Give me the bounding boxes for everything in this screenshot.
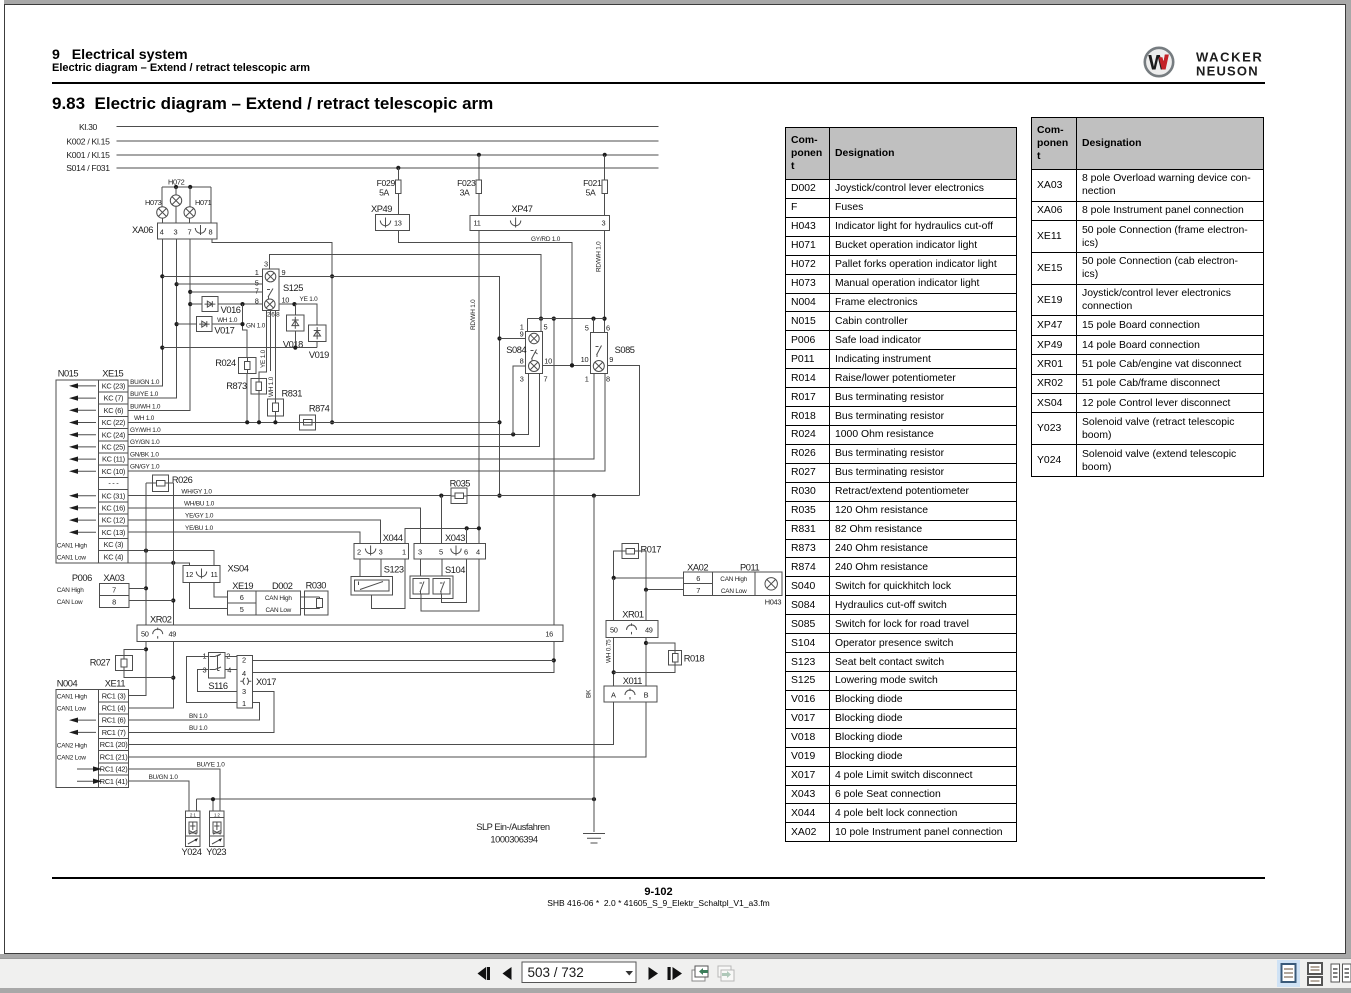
- wire X017 pin1 to XE11 RC1(6) BN 1.0: [129, 703, 260, 721]
- svg-text:8: 8: [112, 598, 116, 607]
- wire X011 B down: [645, 702, 647, 757]
- wire X043 pin3 riser down: [420, 559, 422, 578]
- switch S084 hydraulics cut-off: [525, 332, 542, 374]
- wire S125 pin10 to V019: [279, 304, 317, 325]
- wire KC24 GY/WH 1.0 to S084 pin3: [128, 374, 528, 435]
- svg-text:R024: R024: [215, 358, 236, 368]
- svg-text:9: 9: [282, 268, 286, 277]
- resistor R035: [451, 488, 467, 503]
- lamp H073: [157, 207, 168, 218]
- fuse F029 5A: [396, 166, 400, 170]
- svg-text:XS04: XS04: [228, 564, 249, 574]
- diode V019: [309, 325, 326, 341]
- wire R018 bottom lead: [614, 665, 675, 672]
- wire CAN2 Low vertical: [645, 590, 647, 686]
- svg-text:49: 49: [645, 625, 653, 634]
- connector XR02 cab/frame disconnect: [137, 625, 563, 641]
- svg-text:RD/WH 1.0: RD/WH 1.0: [470, 299, 477, 330]
- wire KC10 GN/GY 1.0 to S085 pin8: [128, 374, 605, 471]
- svg-text:V019: V019: [309, 350, 329, 360]
- wire S084 pin1 riser to bus: [527, 319, 529, 332]
- wire KC31 WH/GY 1.0 through R035: [128, 495, 451, 497]
- resistor R017: [622, 544, 638, 559]
- ground symbol: [583, 834, 605, 844]
- svg-text:BU/YE 1.0: BU/YE 1.0: [130, 391, 159, 398]
- svg-text:4: 4: [242, 669, 246, 678]
- svg-text:KC (12): KC (12): [102, 516, 125, 525]
- wire BK ground drop: [593, 496, 595, 832]
- wire CAN2 Low RC1(21) to X011 B: [129, 702, 646, 757]
- svg-text:S084: S084: [506, 345, 526, 355]
- svg-text:7: 7: [112, 585, 116, 594]
- resistor R030: [304, 591, 328, 615]
- page number input: [522, 962, 636, 983]
- next page button: [649, 967, 659, 980]
- single page layout button active: [1277, 960, 1300, 987]
- wire X044 pin1 net to X043: [405, 528, 479, 543]
- svg-text:WH 1.0: WH 1.0: [268, 376, 275, 397]
- svg-text:3: 3: [379, 548, 383, 557]
- svg-text:V017: V017: [214, 326, 234, 336]
- wire X043 pin5 riser down: [441, 559, 443, 578]
- svg-text:2 1: 2 1: [190, 813, 196, 818]
- svg-text:WH 1.0: WH 1.0: [134, 415, 155, 422]
- node S014 / F031 bus line: [117, 167, 659, 169]
- svg-text:1: 1: [255, 268, 259, 277]
- svg-text:K002 / Kl.15: K002 / Kl.15: [66, 136, 110, 146]
- wire S125 pin3 to S084 pin5 riser: [269, 254, 541, 318]
- svg-text:1: 1: [402, 548, 406, 557]
- wire S116 pin1 to X017 pin1: [186, 657, 237, 703]
- svg-text:BU/GN 1.0: BU/GN 1.0: [130, 379, 160, 386]
- svg-text:3: 3: [418, 548, 422, 557]
- svg-text:H043: H043: [765, 598, 782, 607]
- svg-text:A: A: [611, 690, 616, 699]
- wire CAN2 High RC1(20) to X011 A: [129, 702, 614, 745]
- wire KC11 GN/BK 1.0 to S085 pin1: [128, 374, 594, 459]
- svg-text:R873: R873: [226, 381, 247, 391]
- node K001 / Kl.15 bus line: [117, 154, 659, 156]
- svg-text:XP49: XP49: [371, 204, 392, 214]
- svg-text:3: 3: [602, 219, 606, 228]
- svg-text:GN 1.0: GN 1.0: [246, 323, 266, 330]
- svg-text:8: 8: [520, 357, 524, 366]
- svg-text:503 / 732: 503 / 732: [528, 965, 584, 980]
- svg-text:X011: X011: [623, 676, 643, 686]
- svg-text:N004: N004: [57, 678, 78, 688]
- wire R018 top lead: [646, 643, 675, 650]
- svg-text:XE19: XE19: [232, 581, 253, 591]
- resistor R874: [300, 415, 316, 430]
- wire XA03 pin8 to CAN1 Low: [129, 600, 173, 602]
- svg-text:KC (13): KC (13): [102, 528, 125, 537]
- svg-text:3: 3: [520, 374, 524, 383]
- lamp H043 in P011: [755, 572, 782, 596]
- wire S125 pin7: [190, 291, 262, 293]
- wire X011 A down: [613, 702, 615, 745]
- wire KC16 WH/BU 1.0 to X043 pin3: [128, 508, 421, 544]
- svg-text:N015: N015: [58, 369, 79, 379]
- svg-text:CAN High: CAN High: [265, 595, 292, 602]
- svg-text:XA03: XA03: [103, 573, 124, 583]
- wire S085 pin1 riser to GN/BK: [593, 374, 595, 459]
- svg-text:12: 12: [186, 570, 194, 579]
- lamp H072: [170, 195, 181, 206]
- next view button (disabled): [718, 966, 734, 981]
- wire KC4 CAN1 Low to XS04 pin12: [128, 563, 190, 566]
- svg-text:GY/GN 1.0: GY/GN 1.0: [130, 439, 160, 446]
- svg-text:KC (25): KC (25): [102, 443, 125, 452]
- resistor R026: [152, 475, 168, 491]
- svg-text:KC (24): KC (24): [102, 430, 125, 439]
- svg-text:5: 5: [439, 548, 443, 557]
- svg-text:YE 1.0: YE 1.0: [300, 296, 319, 303]
- svg-text:5: 5: [240, 605, 244, 614]
- wire XR02 pin16 down to X017: [253, 641, 554, 672]
- svg-text:RC1 (20): RC1 (20): [100, 740, 128, 749]
- svg-text:XA02: XA02: [687, 563, 708, 573]
- wire RD/WH 1.0 XP47 pin11 to X043 pin4: [478, 230, 480, 543]
- connector X043 seat connection: [414, 543, 485, 559]
- svg-text:X043: X043: [445, 533, 465, 543]
- svg-text:KC (10): KC (10): [102, 467, 125, 476]
- svg-text:KC (23): KC (23): [102, 382, 125, 391]
- svg-text:XR02: XR02: [150, 615, 172, 625]
- svg-text:4: 4: [476, 548, 480, 557]
- svg-text:BU/GN 1.0: BU/GN 1.0: [149, 774, 179, 781]
- svg-text:P006: P006: [72, 573, 92, 583]
- wire X017 pin2 to XR02 pin16: [253, 659, 554, 661]
- connector XE15 cells: [99, 380, 128, 563]
- fuse F023 3A: [477, 153, 481, 157]
- lamp H071: [184, 207, 195, 218]
- svg-text:S116: S116: [208, 681, 228, 691]
- svg-text:8: 8: [209, 228, 213, 237]
- svg-text:R026: R026: [172, 475, 193, 485]
- first page button: [478, 967, 491, 980]
- wire CAN1 Low vertical: [129, 483, 174, 708]
- svg-text:10: 10: [544, 357, 552, 366]
- wire KC25 GY/GN 1.0 to S084 pin7: [128, 374, 539, 447]
- svg-text:9: 9: [609, 355, 613, 364]
- svg-text:7: 7: [544, 374, 548, 383]
- svg-text:R030: R030: [306, 580, 327, 590]
- svg-text:Y023: Y023: [206, 847, 226, 857]
- svg-text:11: 11: [211, 570, 218, 579]
- svg-text:CAN Low: CAN Low: [266, 607, 292, 614]
- svg-text:KC (3): KC (3): [104, 540, 124, 549]
- svg-text:R018: R018: [684, 654, 705, 664]
- svg-text:GY/WH 1.0: GY/WH 1.0: [130, 427, 161, 434]
- svg-text:XP47: XP47: [512, 204, 533, 214]
- wire GN 1.0 branch to R024: [243, 304, 248, 358]
- wire XA02 pin6 CAN High: [614, 577, 684, 579]
- wire CAN1 High vertical: [129, 483, 146, 696]
- svg-text:1 2: 1 2: [214, 813, 220, 818]
- svg-text:1: 1: [202, 651, 206, 660]
- svg-text:1000306394: 1000306394: [490, 835, 537, 845]
- wire S084 pin8 to GY/WH: [513, 366, 525, 434]
- svg-text:2: 2: [242, 655, 246, 664]
- svg-text:GN/GY 1.0: GN/GY 1.0: [130, 464, 160, 471]
- wire X017 pin4 right: [253, 671, 554, 673]
- svg-text:R017: R017: [641, 545, 662, 555]
- svg-text:CAN1 High: CAN1 High: [57, 693, 88, 700]
- wire S123 to X044 pin1: [372, 559, 405, 608]
- wire XS04 pin11 to XE19 pin6: [214, 583, 228, 597]
- svg-text:R874: R874: [309, 403, 330, 413]
- wire S125 pin5: [177, 283, 263, 285]
- svg-text:YE/BU 1.0: YE/BU 1.0: [185, 525, 214, 532]
- svg-text:KC (31): KC (31): [102, 491, 125, 500]
- svg-text:49: 49: [169, 630, 177, 639]
- svg-text:CAN High: CAN High: [57, 587, 84, 594]
- wire S125 pin1: [162, 275, 262, 277]
- resistor R024: [239, 358, 257, 374]
- connector XE11 cells: [99, 690, 129, 788]
- svg-text:S085: S085: [615, 345, 635, 355]
- wire BU/YE 1.0 RC1(42) to Y023: [129, 769, 220, 811]
- wire KC12 YE/GY 1.0 to X044 pin3: [128, 520, 381, 543]
- svg-text:1: 1: [242, 699, 246, 708]
- wire X044 pin2 riser: [359, 559, 361, 576]
- wire valve common to ground: [197, 798, 594, 800]
- previous view button: [692, 966, 708, 981]
- svg-text:CAN1 Low: CAN1 Low: [57, 706, 87, 713]
- svg-text:Kl.30: Kl.30: [79, 122, 98, 132]
- wire XA02 pin7 CAN Low: [646, 589, 684, 591]
- switch S123 seat belt contact: [351, 576, 393, 594]
- svg-text:CAN1 High: CAN1 High: [57, 543, 88, 550]
- connector XP47: [470, 216, 610, 231]
- controller N015 box: [56, 380, 99, 563]
- wire S085 pin9 to WH/GY end: [608, 365, 640, 495]
- svg-text:5: 5: [585, 324, 589, 333]
- wire S116 pin2 to X017: [225, 656, 237, 658]
- svg-text:BU/WH 1.0: BU/WH 1.0: [130, 403, 161, 410]
- node lamp ground bus: [528, 318, 605, 320]
- diode V018: [287, 315, 304, 331]
- svg-text:WH/GY 1.0: WH/GY 1.0: [181, 489, 212, 496]
- svg-text:F023: F023: [457, 178, 476, 188]
- svg-text:- - -: - - -: [108, 479, 119, 488]
- svg-text:S125: S125: [283, 283, 303, 293]
- wire X043 pin5 from WH/GY: [440, 496, 442, 544]
- wire GY/RD 1.0 XP49 pin13 to S084/S085: [398, 230, 572, 365]
- wire S084 pin10 to S085 pin10: [542, 364, 590, 366]
- connector X011: [604, 686, 657, 702]
- svg-text:B: B: [644, 690, 649, 699]
- header section: [52, 47, 188, 63]
- wire S085 pin5 riser: [593, 319, 595, 333]
- wire KC3 CAN1 High to XS04 pin11: [128, 551, 214, 566]
- wire S125 pin8b to R831: [274, 310, 276, 399]
- svg-text:H071: H071: [195, 198, 212, 207]
- svg-text:CAN2 Low: CAN2 Low: [57, 755, 87, 762]
- svg-text:R027: R027: [90, 658, 111, 668]
- svg-text:3: 3: [174, 228, 178, 237]
- wire XS04 pin12 to XE19 pin5: [190, 583, 228, 609]
- svg-text:YE/GY 1.0: YE/GY 1.0: [185, 513, 214, 520]
- svg-text:6: 6: [464, 548, 468, 557]
- connector XR01 cab/engine disconnect: [606, 620, 658, 637]
- svg-text:50: 50: [141, 630, 149, 639]
- svg-text:GN/BK 1.0: GN/BK 1.0: [130, 451, 159, 458]
- svg-text:XE15: XE15: [102, 369, 123, 379]
- svg-text:6: 6: [606, 324, 610, 333]
- svg-text:BU 1.0: BU 1.0: [189, 725, 208, 732]
- svg-text:KC (7): KC (7): [104, 394, 124, 403]
- svg-text:H073: H073: [145, 198, 162, 207]
- svg-text:50: 50: [610, 625, 618, 634]
- svg-text:S014 / F031: S014 / F031: [66, 163, 110, 173]
- wire KC22 WH 1.0 line: [128, 421, 499, 423]
- svg-text:RC1 (21): RC1 (21): [100, 752, 128, 761]
- resistor R873: [251, 378, 267, 394]
- svg-text:GY/RD 1.0: GY/RD 1.0: [531, 236, 561, 243]
- wire V017 out: [212, 323, 242, 325]
- svg-text:D002: D002: [272, 581, 293, 591]
- wire S125 pin6 stub: [270, 310, 272, 371]
- connector XA06: [157, 223, 217, 239]
- svg-text:8: 8: [606, 375, 610, 384]
- wire S085 pin8 riser to GN/GY: [604, 374, 606, 471]
- connector X017 limit switch disconnect: [237, 656, 253, 708]
- svg-text:KC (4): KC (4): [104, 552, 124, 561]
- svg-text:WH 0.75: WH 0.75: [606, 639, 613, 663]
- svg-text:RC1 (3): RC1 (3): [102, 691, 126, 700]
- component table 2: [1031, 117, 1264, 477]
- svg-text:BN 1.0: BN 1.0: [189, 713, 208, 720]
- svg-text:KC (11): KC (11): [102, 455, 125, 464]
- svg-text:RC1 (4): RC1 (4): [102, 704, 126, 713]
- wire R017 right lead: [639, 551, 646, 590]
- svg-text:1: 1: [585, 375, 589, 384]
- svg-text:XA06: XA06: [132, 225, 153, 235]
- node Kl.30 bus line: [117, 126, 659, 128]
- wire XA06 pin3 to XE15 KC7: [128, 239, 177, 398]
- wire XA06 pin4 to XE15 KC23: [128, 239, 162, 386]
- svg-text:Y024: Y024: [182, 847, 202, 857]
- two page layout button: [1331, 964, 1340, 982]
- connector XE19: [228, 591, 257, 615]
- svg-text:13: 13: [394, 219, 402, 228]
- svg-text:6: 6: [240, 593, 244, 602]
- svg-text:5A: 5A: [379, 188, 389, 198]
- svg-text:RD/WH 1.0: RD/WH 1.0: [596, 241, 603, 272]
- wire S116 pin3 to X017 pin3: [197, 670, 237, 692]
- svg-text:KC (6): KC (6): [104, 406, 124, 415]
- diode V016: [202, 297, 218, 312]
- wire X043 pin6 riser from X044 net: [466, 528, 468, 543]
- connector XA02: [684, 572, 713, 596]
- switch S104 operator presence: [410, 576, 453, 599]
- svg-text:16: 16: [545, 630, 553, 639]
- svg-text:H072: H072: [168, 178, 185, 187]
- pdf viewer toolbar: [0, 958, 1351, 988]
- svg-text:7: 7: [188, 228, 192, 237]
- switch S116 seat contact: [209, 652, 225, 678]
- fuse F021 5A: [603, 153, 607, 157]
- svg-text:3: 3: [264, 260, 268, 269]
- svg-text:2: 2: [357, 548, 361, 557]
- svg-text:5A: 5A: [586, 188, 596, 198]
- svg-text:RC1 (7): RC1 (7): [102, 728, 126, 737]
- wire GY/RD junction dot: [570, 363, 574, 367]
- svg-text:S123: S123: [384, 565, 404, 575]
- svg-text:X017: X017: [256, 677, 276, 687]
- wire X017 pin3 to XE11 RC1(7) BU 1.0: [129, 691, 275, 732]
- connector XS04: [183, 566, 220, 583]
- wire S104 right pole to X043 pin6: [442, 559, 467, 603]
- svg-text:3A: 3A: [460, 188, 470, 198]
- wire S125 pin8 from V016: [218, 303, 262, 305]
- svg-text:KC (22): KC (22): [102, 418, 125, 427]
- svg-text:RC1 (41): RC1 (41): [100, 777, 128, 786]
- footer: [52, 877, 1265, 879]
- svg-text:WH 1.0: WH 1.0: [217, 317, 238, 324]
- svg-text:CAN Low: CAN Low: [721, 588, 747, 595]
- diode V017: [197, 317, 213, 332]
- resistor R027: [116, 655, 133, 670]
- svg-text:4: 4: [160, 228, 164, 237]
- frame electronics N004 box: [56, 690, 99, 788]
- last page button: [668, 967, 683, 980]
- connector X044 belt lock connection: [354, 543, 409, 559]
- resistor R018: [669, 650, 682, 665]
- svg-text:F029: F029: [377, 178, 396, 188]
- svg-text:7: 7: [255, 287, 259, 296]
- wire S084 pin5 riser: [540, 319, 542, 332]
- wire XR02 pin16 riser from S084/S085 bus: [553, 319, 555, 625]
- solenoid valve Y024 extend telescopic boom: [186, 811, 201, 846]
- svg-text:YE 1.0: YE 1.0: [260, 349, 267, 368]
- wire lamp top rail: [162, 186, 211, 188]
- svg-text:9: 9: [520, 330, 524, 339]
- wire diode return rail: [162, 347, 317, 349]
- svg-text:WH/BU 1.0: WH/BU 1.0: [184, 500, 215, 507]
- wire KC13 YE/BU 1.0 to X044 pin2: [128, 532, 360, 543]
- switch S085 lock for road travel: [591, 333, 608, 374]
- svg-text:XE11: XE11: [105, 678, 126, 688]
- wire XA06 pin8 ground rail: [212, 239, 332, 422]
- svg-text:BU/YE 1.0: BU/YE 1.0: [197, 762, 226, 769]
- node K002 / Kl.15 bus line: [117, 140, 659, 142]
- continuous layout button: [1308, 963, 1322, 974]
- svg-text:3: 3: [242, 687, 246, 696]
- svg-text:CAN High: CAN High: [720, 576, 747, 583]
- connector XP49: [376, 215, 410, 231]
- svg-text:BK: BK: [586, 689, 593, 698]
- svg-text:8: 8: [276, 312, 280, 319]
- Wacker Neuson logo: [1140, 44, 1272, 82]
- svg-text:10: 10: [581, 355, 589, 364]
- svg-text:6: 6: [696, 574, 700, 583]
- svg-text:6: 6: [271, 312, 275, 319]
- wire BU/GN 1.0 RC1(41) to Y024: [129, 781, 190, 811]
- svg-text:SLP Ein-/Ausfahren: SLP Ein-/Ausfahren: [476, 822, 550, 832]
- joystick electronics D002: [256, 591, 301, 615]
- resistor R831: [268, 399, 284, 416]
- svg-text:CAN Low: CAN Low: [57, 599, 83, 606]
- wire S125 pin9 net: [279, 276, 500, 495]
- svg-text:P011: P011: [740, 563, 760, 573]
- svg-text:2: 2: [226, 651, 230, 660]
- svg-text:F021: F021: [583, 178, 602, 188]
- svg-text:10: 10: [282, 296, 290, 305]
- svg-text:XR01: XR01: [622, 610, 644, 620]
- wire S125 pin2 to R873: [259, 310, 267, 378]
